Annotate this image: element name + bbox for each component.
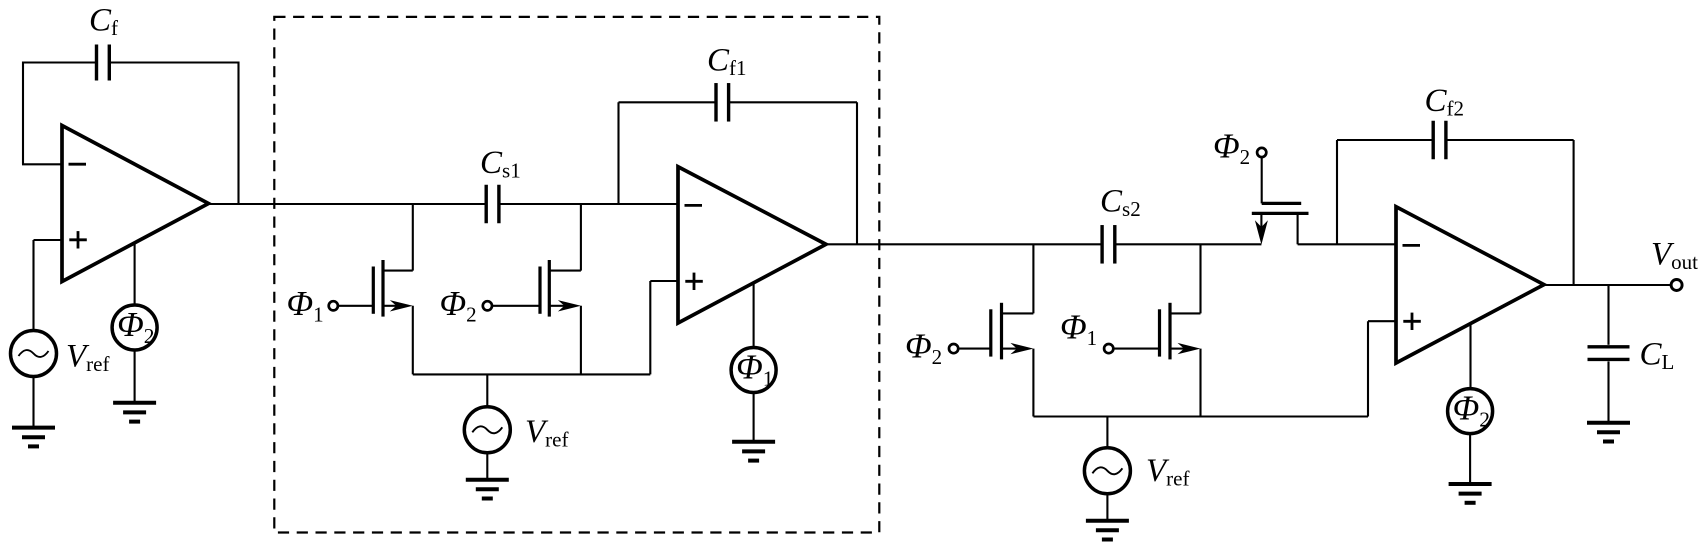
wire Cs1 to U2 inverting input xyxy=(499,203,678,205)
wire Cf2 down to U3 output xyxy=(1573,140,1575,285)
wire node to M4 drain xyxy=(1199,244,1201,313)
wire Cf left xyxy=(23,61,97,63)
dashed box (first integrator stage) xyxy=(274,17,879,533)
transistor M5 (series PHI2 switch) xyxy=(1252,148,1309,245)
wire clock to ground xyxy=(753,393,755,442)
wire Cf1 down to U2 output xyxy=(856,102,858,244)
ground xyxy=(732,442,775,461)
transistor M3 (PHI2 switch) xyxy=(949,303,1033,360)
ground xyxy=(1086,521,1129,540)
source Vref (stage 2) xyxy=(464,407,510,453)
svg-text:Cs1: Cs1 xyxy=(480,145,521,183)
svg-text:Cf1: Cf1 xyxy=(707,43,747,81)
wire feedback right vertical xyxy=(237,62,239,205)
wire M2 source down to rail xyxy=(580,306,582,375)
svg-text:Cs2: Cs2 xyxy=(1100,184,1141,222)
wire rail to Vref source xyxy=(486,374,488,407)
wire node to M2 drain xyxy=(580,204,582,271)
wire to U2 plus xyxy=(650,280,678,282)
source Vref (stage 3) xyxy=(1084,448,1130,494)
wire Cf1 right xyxy=(729,101,857,103)
wire rail up to U2 non-inverting input xyxy=(649,281,651,374)
clock source PHI2 at U1 xyxy=(112,305,157,350)
svg-text:CL: CL xyxy=(1640,337,1675,375)
wire to U1 non-inverting input xyxy=(34,239,63,241)
capacitor Cs1 xyxy=(486,185,499,224)
wire Cf right to feedback corner xyxy=(109,61,238,63)
ground xyxy=(1587,423,1630,442)
wire Cf2 left xyxy=(1337,139,1433,141)
wire U2 clock input xyxy=(753,283,755,348)
wire to U1 inverting input xyxy=(22,163,62,165)
wire Vref to ground xyxy=(486,453,488,480)
wire Vref to ground xyxy=(1106,494,1108,521)
wire up to Cf1 xyxy=(617,102,619,204)
wire node to M1 drain xyxy=(412,204,414,271)
op-amp U2 xyxy=(678,167,826,323)
wire clock to ground xyxy=(1469,434,1471,484)
wire node to M3 drain xyxy=(1032,244,1034,313)
svg-text:Φ2: Φ2 xyxy=(440,284,477,327)
ground xyxy=(1449,484,1492,503)
wire up to Cf2 xyxy=(1336,140,1338,244)
ground xyxy=(12,428,55,447)
svg-text:Φ2: Φ2 xyxy=(1213,127,1250,170)
ground xyxy=(113,403,156,422)
svg-text:Vout: Vout xyxy=(1651,237,1698,275)
clock source PHI1 at U2 xyxy=(731,348,776,393)
wire Cs2 to series switch M5 xyxy=(1115,243,1262,245)
wire to U3 non-inverting input xyxy=(1368,320,1396,322)
wire U3 clock input xyxy=(1469,324,1471,389)
wire clock to ground xyxy=(134,350,136,403)
wire Vref to ground xyxy=(32,377,34,428)
wire rail to Vref source xyxy=(1106,417,1108,449)
svg-text:Vref: Vref xyxy=(1146,453,1189,491)
op-amp U3 xyxy=(1396,207,1544,363)
svg-text:Vref: Vref xyxy=(525,414,568,452)
wire U1 clock input xyxy=(134,243,136,306)
wire feedback left vertical xyxy=(22,62,24,165)
terminal Vout xyxy=(1671,280,1682,291)
wire Cf2 right xyxy=(1446,139,1574,141)
wire M1 source down to rail xyxy=(412,306,414,375)
svg-text:Vref: Vref xyxy=(66,339,109,377)
svg-text:Φ2: Φ2 xyxy=(905,327,942,370)
svg-text:Cf: Cf xyxy=(89,3,118,41)
capacitor CL xyxy=(1588,347,1630,360)
op-amp U1 xyxy=(62,126,209,282)
wire Cf1 left xyxy=(619,101,717,103)
wire stage-2 bottom rail xyxy=(1033,415,1368,417)
svg-text:Φ1: Φ1 xyxy=(1060,308,1097,351)
capacitor Cs2 xyxy=(1102,225,1115,263)
ground xyxy=(466,480,509,499)
source Vref (stage 1) xyxy=(11,331,57,377)
svg-text:Φ1: Φ1 xyxy=(287,284,324,327)
wire output down to CL xyxy=(1607,285,1609,345)
transistor M2 (PHI2 switch) xyxy=(483,260,581,317)
wire M3 source down to rail xyxy=(1032,349,1034,417)
clock source PHI2 at U3 xyxy=(1448,389,1493,434)
wire down to Vref source xyxy=(32,240,34,332)
wire M4 source down to rail xyxy=(1199,349,1201,417)
capacitor Cf1 xyxy=(716,83,729,122)
transistor M4 (PHI1 switch) xyxy=(1104,303,1200,360)
wire U2 output to Cs2 xyxy=(826,243,1102,245)
wire middle bottom rail xyxy=(413,373,651,375)
capacitor Cf2 xyxy=(1433,121,1446,160)
svg-text:Cf2: Cf2 xyxy=(1425,83,1465,121)
wire M5 to U3 inverting input xyxy=(1298,243,1396,245)
transistor M1 (PHI1 switch) xyxy=(329,260,413,317)
wire U1 output to Cs1 xyxy=(209,203,487,205)
wire U3 plus down to rail xyxy=(1367,321,1369,416)
capacitor Cf xyxy=(97,45,110,81)
wire CL to ground xyxy=(1607,361,1609,422)
wire U3 output to Vout terminal xyxy=(1544,284,1671,286)
